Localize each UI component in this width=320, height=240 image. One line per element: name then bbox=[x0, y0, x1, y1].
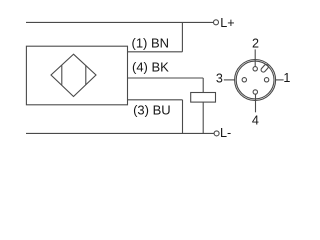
svg-text:(3) BU: (3) BU bbox=[133, 102, 171, 117]
svg-text:2: 2 bbox=[252, 36, 259, 50]
svg-text:L+: L+ bbox=[220, 16, 234, 30]
svg-text:1: 1 bbox=[283, 71, 290, 85]
svg-text:3: 3 bbox=[216, 72, 223, 86]
svg-text:(4) BK: (4) BK bbox=[132, 60, 169, 75]
svg-text:(1) BN: (1) BN bbox=[132, 35, 170, 50]
svg-text:L-: L- bbox=[220, 126, 231, 140]
svg-text:4: 4 bbox=[252, 114, 259, 128]
